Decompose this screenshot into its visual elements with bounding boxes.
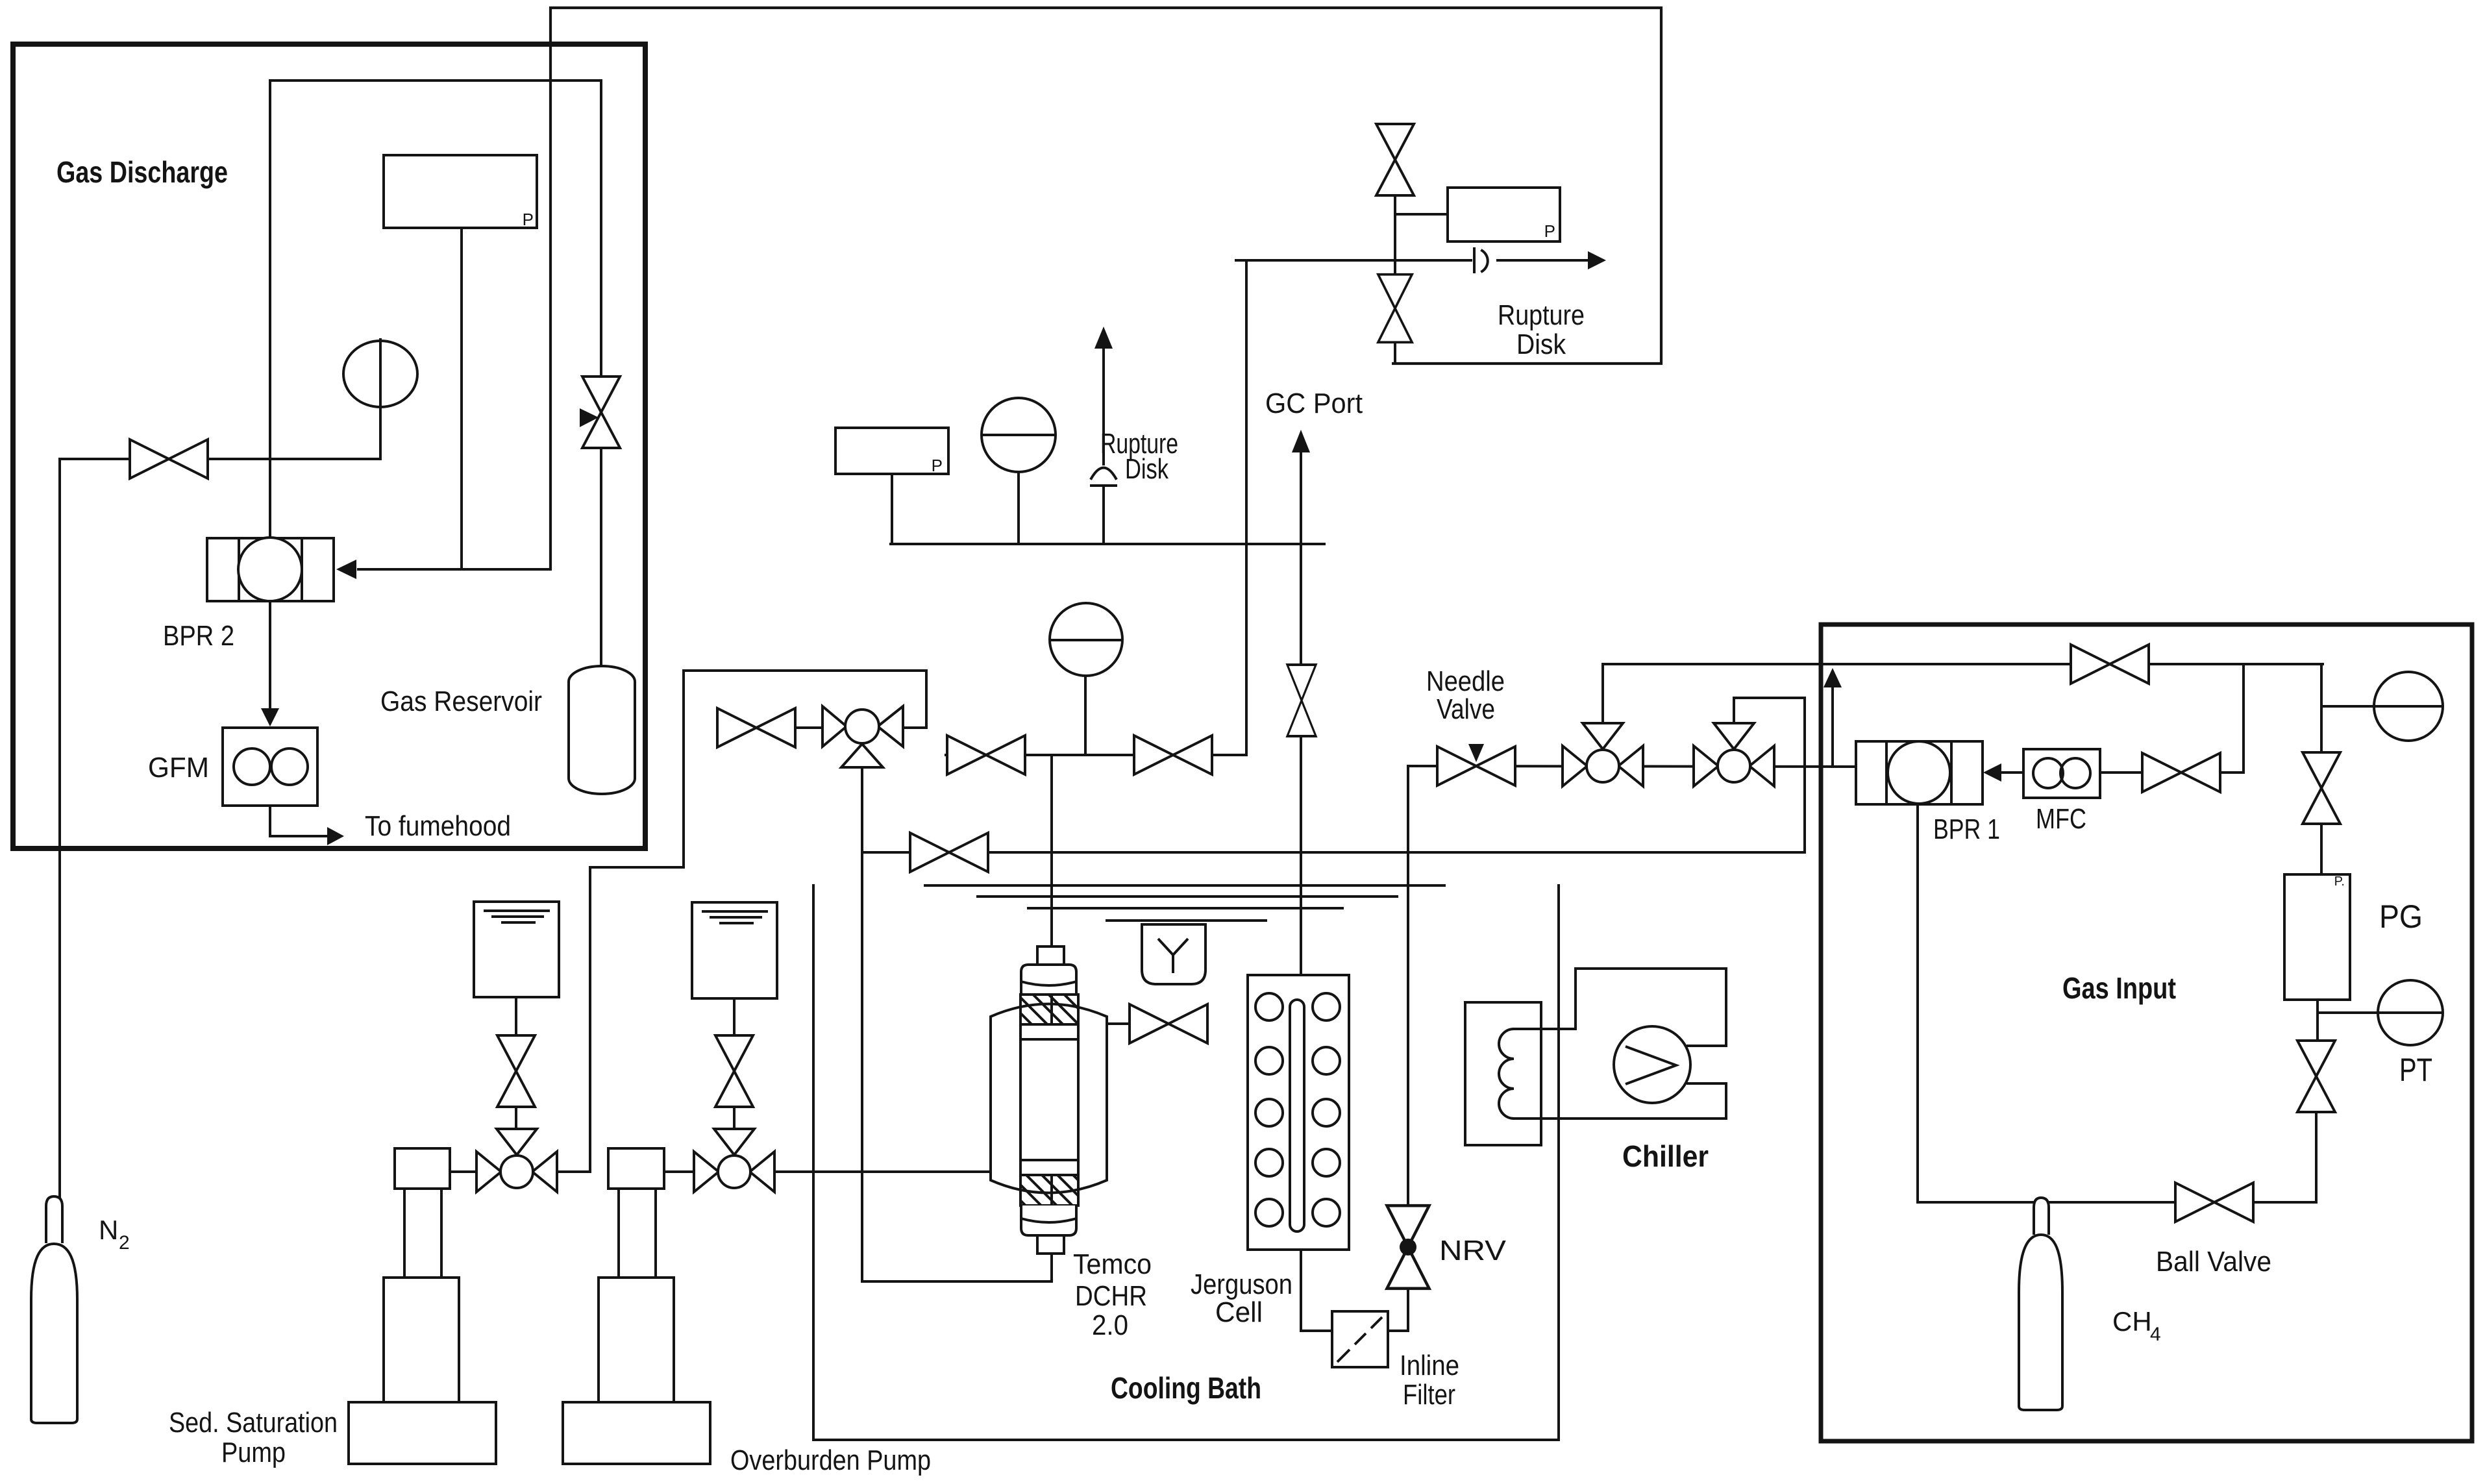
svg-text:Disk: Disk xyxy=(1125,453,1169,485)
svg-text:GC Port: GC Port xyxy=(1265,388,1363,419)
svg-text:P: P xyxy=(1544,221,1555,241)
svg-text:Filter: Filter xyxy=(1403,1379,1455,1411)
svg-text:2: 2 xyxy=(119,1232,130,1254)
svg-text:Chiller: Chiller xyxy=(1622,1139,1709,1173)
svg-text:BPR 1: BPR 1 xyxy=(1933,813,2000,845)
svg-text:2.0: 2.0 xyxy=(1092,1309,1128,1341)
svg-text:CH: CH xyxy=(2112,1306,2152,1337)
svg-text:Overburden Pump: Overburden Pump xyxy=(730,1444,931,1476)
svg-text:Disk: Disk xyxy=(1516,328,1566,360)
svg-text:MFC: MFC xyxy=(2036,803,2086,835)
svg-text:Cell: Cell xyxy=(1215,1296,1263,1328)
svg-text:Needle: Needle xyxy=(1426,665,1505,697)
svg-text:Sed. Saturation: Sed. Saturation xyxy=(169,1407,338,1439)
svg-text:BPR 2: BPR 2 xyxy=(163,620,234,652)
svg-text:P: P xyxy=(523,210,534,229)
svg-text:Cooling Bath: Cooling Bath xyxy=(1111,1371,1261,1405)
svg-text:Temco: Temco xyxy=(1073,1248,1152,1280)
svg-text:Gas Input: Gas Input xyxy=(2062,971,2176,1005)
svg-text:Rupture: Rupture xyxy=(1498,299,1585,331)
svg-text:DCHR: DCHR xyxy=(1075,1280,1147,1312)
svg-text:Inline: Inline xyxy=(1400,1350,1459,1381)
svg-text:To fumehood: To fumehood xyxy=(365,810,511,842)
svg-text:GFM: GFM xyxy=(148,752,209,784)
svg-text:Valve: Valve xyxy=(1437,693,1495,725)
svg-text:PG: PG xyxy=(2379,898,2423,935)
svg-text:NRV: NRV xyxy=(1439,1235,1507,1267)
svg-text:N: N xyxy=(99,1215,118,1245)
svg-text:PT: PT xyxy=(2399,1052,2432,1088)
svg-text:Ball Valve: Ball Valve xyxy=(2156,1246,2271,1278)
svg-text:Gas Discharge: Gas Discharge xyxy=(56,155,228,189)
svg-text:Pump: Pump xyxy=(221,1437,286,1468)
svg-text:Gas Reservoir: Gas Reservoir xyxy=(380,686,542,717)
svg-text:P: P xyxy=(932,456,943,475)
svg-text:Jerguson: Jerguson xyxy=(1191,1268,1292,1300)
svg-text:4: 4 xyxy=(2150,1324,2161,1345)
svg-text:P.: P. xyxy=(2334,874,2345,889)
